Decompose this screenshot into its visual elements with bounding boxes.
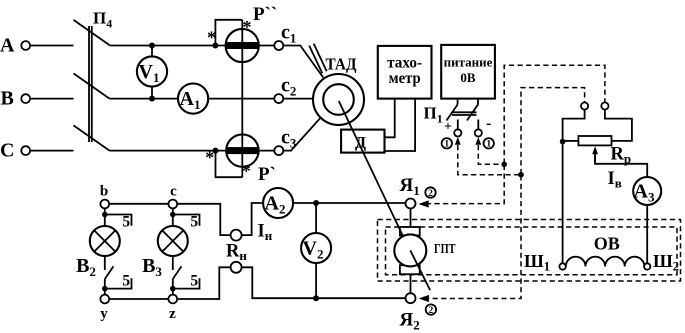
voltmeter V1 (137, 56, 167, 86)
wattmeter P` current coil bar (226, 147, 260, 154)
wire P1 plug leads (458, 120, 479, 130)
junction dot phase A wattmeter tap (212, 43, 218, 49)
lamp B2 branch top wire and tap 5 (102, 208, 132, 230)
shaft TAD to GPT (339, 101, 430, 290)
svg-text:1: 1 (486, 140, 491, 150)
wattmeter P`` current coil bar (225, 42, 259, 49)
junction dot dashed minus (501, 162, 507, 168)
label c1 (281, 22, 296, 46)
svg-text:*: * (205, 148, 214, 168)
cable label 1 left (442, 138, 452, 150)
cable arrow 2 to Ya1 (419, 200, 429, 207)
wire lamp top rail from b to Rn jack (109, 204, 230, 235)
asterisk P` voltage (242, 161, 251, 181)
svg-text:5: 5 (122, 214, 130, 231)
label D (355, 135, 366, 152)
label C (0, 139, 14, 161)
wire tachometer left lead to D (385, 99, 395, 137)
dashed machine outline outer (378, 220, 681, 282)
label A (0, 34, 15, 56)
junction dot phase A V1 tap (149, 43, 155, 49)
wire GPT lower brush to Ya2 (410, 274, 412, 294)
label GPT (434, 242, 456, 257)
wire phase B input (30, 98, 73, 100)
svg-text:тахо-: тахо- (387, 54, 422, 71)
switch P1 (447, 99, 479, 121)
dashed cable minus junction to Ya1 arrow (428, 165, 504, 204)
wire phase C input (30, 150, 73, 152)
wire phase A from switch to terminal c1 (110, 45, 275, 47)
terminal C (21, 146, 30, 155)
field winding OV coil (566, 257, 645, 267)
wire P` voltage coil tap from phase C (216, 151, 243, 178)
ammeter A1 (178, 84, 208, 114)
svg-text:1: 1 (444, 140, 449, 150)
lamp B2 bottom tap 5 (102, 273, 132, 292)
terminal A (21, 41, 30, 50)
load jack Rn top (231, 230, 242, 241)
dashed machine outline inner (386, 227, 678, 275)
svg-text:5: 5 (190, 273, 198, 290)
svg-text:5: 5 (190, 214, 198, 231)
lamp B2 bottom switch blade (105, 256, 114, 294)
wire V2 tap (315, 203, 317, 298)
label P1 (424, 104, 443, 126)
svg-text:z: z (169, 306, 176, 322)
svg-text:c: c (170, 184, 177, 200)
label c (170, 184, 177, 200)
svg-text:+: + (444, 120, 452, 135)
coupling box D (341, 130, 384, 153)
asterisk P`` voltage (243, 17, 252, 37)
tachometer box (378, 46, 432, 99)
svg-text:питание: питание (444, 54, 493, 69)
label OV (594, 234, 620, 254)
label minus (486, 115, 491, 132)
generator GPT armature (394, 234, 426, 266)
wire c2 to TAD stator (283, 98, 313, 100)
terminal B (21, 94, 30, 103)
wire c1 to TAD stator (283, 46, 323, 78)
svg-text:метр: метр (389, 70, 421, 87)
svg-text:Р`: Р` (258, 164, 276, 185)
label P`` (253, 4, 277, 25)
load jack Rn bottom (231, 262, 242, 273)
label Iv (608, 169, 622, 191)
wire phase B from switch to terminal c2 (110, 98, 275, 100)
plug socket P1 plus (454, 129, 461, 136)
wire lamp bottom rail from y to Rn bottom jack (109, 267, 230, 299)
svg-text:0В: 0В (460, 70, 476, 85)
lamp B3 bottom switch blade (173, 256, 182, 294)
generator GPT lower brush (400, 265, 420, 274)
wire Rn bottom jack to Ya2 (242, 267, 406, 298)
label Sh2 (653, 251, 679, 274)
label B3 (142, 255, 162, 279)
label B2 (76, 255, 96, 279)
motor TAD stator (313, 74, 364, 125)
label P4 (93, 9, 112, 31)
wire Rp left jack to Rp and Sh1 (563, 110, 585, 264)
wire phase C from switch to terminal c3 (110, 150, 275, 152)
ammeter A3 (633, 177, 661, 205)
cable label 2 upper (425, 187, 435, 199)
cable arrow 2 to Ya2 (419, 295, 429, 302)
voltmeter V2 (301, 233, 331, 263)
cable label 2 lower (426, 304, 436, 316)
terminal Ya2 (406, 293, 416, 303)
wattmeter P`` body (226, 29, 259, 62)
terminal b (100, 200, 109, 209)
terminal Sh2 (644, 263, 650, 269)
label c2 (281, 75, 296, 99)
dashed cable plus junction to Rp left jack (521, 88, 585, 175)
asterisk P`` current (207, 28, 216, 48)
lamp B2 (90, 226, 120, 256)
dashed cable minus junction to Rp right jack (504, 65, 605, 164)
asterisk P` current (205, 148, 214, 168)
label c3 (281, 127, 297, 151)
lamp B3 bottom tap 5 (170, 273, 200, 292)
wire V1 tap between phase A and phase B (151, 46, 153, 99)
wire A3 to Sh2 (646, 205, 648, 263)
svg-text:y: y (100, 306, 108, 322)
wire phase A input (30, 45, 73, 47)
junction dot A2 V2 top (313, 200, 319, 206)
wire Rp right jack to Rp right end (605, 110, 632, 141)
shaft coupling double line (309, 44, 327, 74)
svg-text:-: - (486, 115, 491, 132)
terminal Sh1 (559, 263, 565, 269)
label plus (444, 120, 452, 135)
svg-text:ГПТ: ГПТ (434, 242, 456, 257)
wire Rp wiper to A3 (595, 150, 647, 177)
label Ya2 (400, 309, 420, 332)
svg-text:В: В (1, 87, 14, 109)
svg-text:b: b (100, 184, 108, 200)
dashed cable plus junction to Ya2 arrow (429, 175, 522, 298)
dashed cable plug 1 minus lead to junction (478, 145, 503, 164)
label Sh1 (524, 251, 550, 274)
svg-text:*: * (207, 28, 216, 48)
label Rp (611, 145, 632, 167)
svg-text:ОВ: ОВ (594, 234, 620, 254)
wire Ya1 to GPT upper brush (410, 209, 412, 229)
motor TAD rotor (323, 84, 354, 115)
junction dot V2 bottom (313, 295, 319, 301)
wire tachometer right lead to D (385, 99, 416, 151)
lamp B3 (158, 226, 188, 256)
wire c3 to TAD stator (283, 118, 320, 151)
wire Rp left end (563, 140, 579, 142)
terminal Ya1 (406, 199, 416, 209)
plug socket Rp left (581, 102, 588, 109)
svg-text:2: 2 (428, 189, 433, 199)
terminal y (100, 295, 109, 304)
switch P4 three pole knife switch (74, 20, 110, 151)
terminal c2 (274, 94, 283, 103)
svg-text:С: С (0, 139, 14, 161)
rheostat Rp wiper arrow (592, 146, 598, 164)
ammeter A2 (263, 188, 293, 218)
svg-text:ТАД: ТАД (326, 55, 357, 74)
generator GPT upper brush (400, 227, 420, 236)
plug arrow 1 plus (455, 137, 461, 145)
plug arrow 1 minus (475, 137, 481, 145)
terminal c3 (274, 146, 283, 155)
label Ya1 (400, 175, 420, 198)
label b (100, 184, 108, 200)
power supply OV box (441, 45, 495, 99)
terminal z (168, 295, 177, 304)
wire P`` voltage coil tap from phase A (215, 20, 242, 46)
label z (169, 306, 176, 322)
label In (258, 222, 273, 244)
wire Rn top jack to ammeter A2 (242, 203, 406, 235)
wire wattmeter voltage coils vertical (241, 20, 243, 177)
lamp B3 branch top wire and tap 5 (170, 208, 200, 230)
label Rn (226, 242, 247, 264)
terminal c1 (274, 41, 283, 50)
junction dot dashed plus (518, 172, 524, 178)
plug socket Rp right (601, 102, 608, 109)
svg-text:А: А (0, 34, 15, 56)
junction dot phase B V1 tap (149, 96, 155, 102)
svg-text:Р``: Р`` (253, 4, 277, 25)
terminal c (168, 200, 177, 209)
svg-text:5: 5 (122, 273, 130, 290)
svg-text:2: 2 (429, 306, 434, 316)
svg-text:*: * (242, 161, 251, 181)
cable label 1 right (484, 138, 494, 150)
label TAD (326, 55, 357, 74)
label P` (258, 164, 276, 185)
junction dot phase C wattmeter tap (213, 148, 219, 154)
junction dot Rp left (560, 139, 566, 145)
rheostat Rp (578, 136, 611, 145)
dashed cable plug 1 plus lead to junction (458, 145, 521, 175)
label y (100, 306, 108, 322)
plug socket P1 minus (475, 129, 482, 136)
label B (1, 87, 14, 109)
svg-text:*: * (243, 17, 252, 37)
wattmeter P` body (226, 134, 258, 166)
